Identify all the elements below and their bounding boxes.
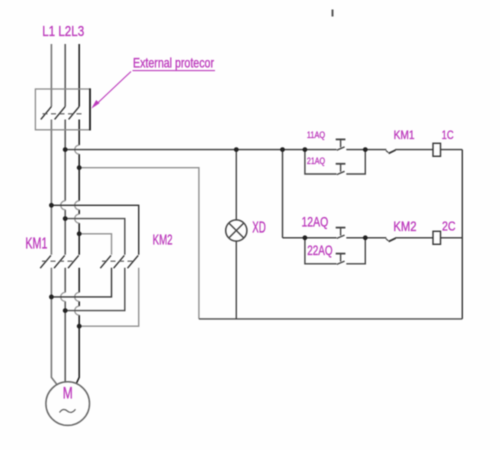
svg-text:KM2: KM2 <box>393 219 416 234</box>
svg-text:22AQ: 22AQ <box>307 242 332 258</box>
svg-text:L1 L2L3: L1 L2L3 <box>42 23 84 40</box>
svg-text:2C: 2C <box>442 219 456 234</box>
svg-text:KM1: KM1 <box>394 128 415 142</box>
svg-text:21AQ: 21AQ <box>307 156 325 167</box>
svg-text:11AQ: 11AQ <box>307 130 325 141</box>
svg-text:KM1: KM1 <box>25 235 47 252</box>
svg-text:KM2: KM2 <box>153 232 173 249</box>
svg-text:M: M <box>63 383 73 402</box>
svg-text:XD: XD <box>252 220 266 237</box>
svg-text:External protecor: External protecor <box>133 55 214 71</box>
svg-text:1C: 1C <box>442 128 454 142</box>
svg-text:12AQ: 12AQ <box>302 213 329 229</box>
